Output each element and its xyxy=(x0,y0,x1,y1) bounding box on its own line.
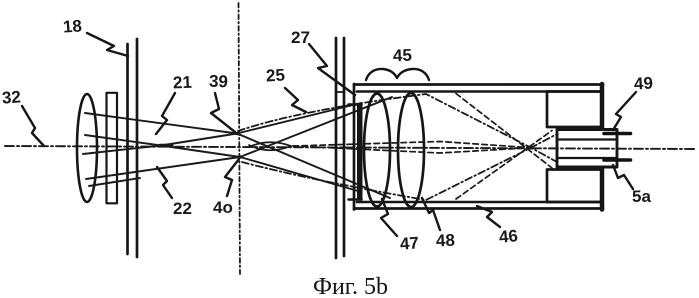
label 25 xyxy=(265,66,285,87)
lens 48 xyxy=(398,93,424,207)
fiber prong lower 5a xyxy=(604,158,631,162)
focus blob F1 xyxy=(160,144,172,147)
label 49 xyxy=(633,74,653,95)
wire F1 to node 40 xyxy=(161,146,240,158)
aperture top stub xyxy=(349,103,362,106)
leader arrow 32 xyxy=(22,106,44,146)
beam waist arc lower xyxy=(249,145,291,150)
label 21 xyxy=(173,73,193,94)
node 39 junction dot xyxy=(235,132,239,136)
ray 22 lower inner xyxy=(83,146,161,155)
tube 49 outer xyxy=(557,130,617,168)
label 48 xyxy=(436,231,456,252)
wall 18 (left line) xyxy=(126,44,129,254)
label 22 xyxy=(173,199,192,219)
leader arrow 18 xyxy=(87,33,128,56)
housing 46 bottom wall outer xyxy=(354,207,603,210)
aperture bar xyxy=(357,105,363,200)
leader arrow 40 xyxy=(225,159,239,196)
leader arrow 21 xyxy=(156,93,175,134)
tube 49 bore lower line xyxy=(558,157,616,159)
wall 27 rung mark xyxy=(336,91,344,93)
leader arrow 25 xyxy=(285,88,306,112)
leader arrow 39 xyxy=(211,93,235,132)
dashed steep ray lower (through F2) xyxy=(456,131,552,200)
tube 49 bore upper line xyxy=(558,138,616,140)
optical axis (horizontal dash-dot line 32) xyxy=(5,146,694,149)
ray lower outer second stroke xyxy=(89,178,140,186)
aperture bottom stub xyxy=(349,198,362,201)
housing 46 left wall xyxy=(353,84,356,210)
leader arrow 27 xyxy=(309,44,355,95)
wall 27 (left line) xyxy=(335,38,338,258)
dashed axial ray lower xyxy=(293,146,531,153)
clamp block lower xyxy=(547,170,602,203)
wall 27 (right line) xyxy=(343,38,346,256)
caption xyxy=(313,274,388,298)
ray from node 39 steep down-right xyxy=(237,134,390,199)
beam waist arc upper xyxy=(249,142,291,147)
label 27 xyxy=(291,28,310,48)
wall 18 (right line) xyxy=(136,39,139,257)
housing 46 bottom wall inner xyxy=(357,201,601,204)
wire F1 to node 39 xyxy=(161,134,237,146)
housing 46 right wall lower xyxy=(600,169,605,210)
label 39 xyxy=(209,72,229,93)
leader arrow 5a xyxy=(613,165,633,189)
leader arrow 47 xyxy=(381,199,397,236)
ray from node 40 down-right xyxy=(240,157,358,191)
label 46 xyxy=(498,226,519,248)
label 47 xyxy=(399,233,419,254)
label 5a xyxy=(632,187,651,207)
housing 46 top wall inner xyxy=(357,90,601,93)
fiber prong upper 5a xyxy=(604,132,631,136)
ray from node 39 up-right xyxy=(237,103,361,134)
housing 46 top wall outer xyxy=(354,83,603,86)
dash-dot ray 25 upper xyxy=(238,94,557,162)
focus F2 junction dot xyxy=(529,146,533,150)
lens (left condenser) xyxy=(77,94,97,202)
leader arrow 22 xyxy=(157,167,172,198)
ray 21 upper outer xyxy=(85,113,237,134)
plate (filter) xyxy=(107,93,118,204)
clamp block upper xyxy=(547,92,602,128)
label 32 xyxy=(1,87,21,108)
dashed steep ray upper (through F2) xyxy=(456,94,552,169)
ray upper inner xyxy=(85,135,161,146)
leader arrow 46 xyxy=(477,206,500,227)
dashed axial ray upper xyxy=(293,142,531,148)
leader arrow 48 xyxy=(422,198,440,230)
ray lower outer xyxy=(86,157,240,179)
node 40 junction dot xyxy=(238,155,242,159)
ray from node 40 steep up-right xyxy=(240,97,392,157)
label 45 xyxy=(393,46,413,67)
label 18 xyxy=(62,16,82,37)
label 40 xyxy=(213,198,233,218)
vertical reference plane line (dash-dot) xyxy=(239,3,241,274)
housing 46 right wall upper xyxy=(600,84,605,129)
brace 45 xyxy=(366,69,429,80)
dash-dot ray 25 lower xyxy=(242,134,557,200)
lens 47 xyxy=(364,94,390,207)
leader arrow 49 xyxy=(613,92,636,130)
